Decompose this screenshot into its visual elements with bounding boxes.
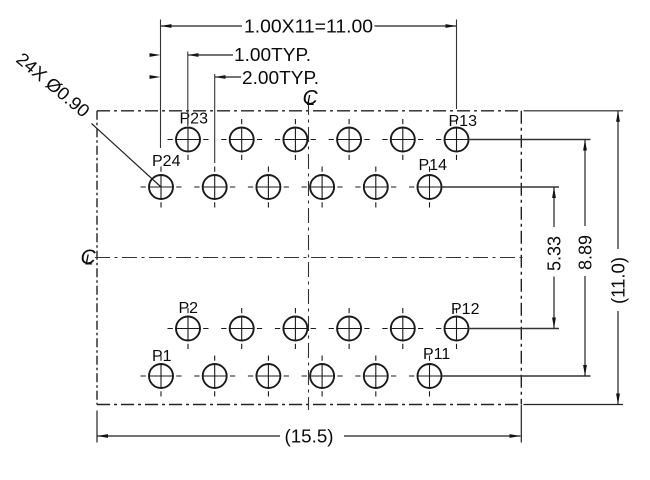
plate outline right edge [520,111,522,405]
extension line plate bottom left vertical [96,411,98,443]
dimension 1.00TYP leader tail [188,54,234,56]
svg-text:(11.0): (11.0) [609,257,629,304]
extension line second hole vertical [214,74,216,163]
dimension 1.00X11=11.00 extension line left [160,20,162,149]
hole P2 [168,308,209,349]
hole P23 [168,119,209,160]
extension line from P14 [442,186,560,188]
hole P11 [409,356,450,397]
hole row1 #3 [275,119,316,160]
dimension 8.89 line [584,140,586,377]
dimension 1.00X11=11.00 arrow left [161,24,172,28]
svg-text:2.00TYP.: 2.00TYP. [242,68,319,88]
dimension 5.33 arrow bottom [552,318,556,329]
centerline symbol top [303,87,319,110]
svg-text:L: L [307,92,315,109]
dimension 5.33 arrow top [552,187,556,198]
svg-text:L: L [85,252,93,269]
dimension 1.00X11=11.00 extension line right [456,20,458,110]
hole row2 #3 [248,167,289,208]
dimension (15.5) arrow right [510,434,521,438]
svg-text:P24: P24 [152,153,181,170]
dimension (11.0) line [617,111,619,405]
hole row3 #4 [329,308,370,349]
dimension 1.00X11=11.00 line [161,25,457,27]
centerline symbol left [81,246,97,269]
hole P1 [141,356,182,397]
extension line from P13 [469,139,591,141]
dimension 2.00TYP leader tail [215,76,242,78]
hole row4 #3 [248,356,289,397]
extension line plate bottom right vertical [520,405,522,443]
plate outline bottom edge [97,404,521,406]
svg-text:(15.5): (15.5) [285,427,334,447]
extension line from P12 [469,328,560,330]
svg-text:1.00TYP.: 1.00TYP. [234,45,311,65]
dimension 2.00TYP arrow at P24 line [150,75,161,79]
svg-text:1.00X11=11.00: 1.00X11=11.00 [244,17,373,37]
dimension 1.00TYP arrow at P24 line [150,53,161,57]
hole P24 [141,167,182,208]
dimension 1.00X11=11.00 arrow right [446,24,457,28]
svg-text:8.89: 8.89 [576,235,596,270]
hole row3 #3 [275,308,316,349]
plate outline left edge [96,111,98,405]
vertical centerline [308,100,310,410]
hole row2 #4 [302,167,343,208]
horizontal centerline [95,257,524,259]
dimension (15.5) arrow left [97,434,108,438]
hole row4 #5 [355,356,396,397]
svg-text:P13: P13 [449,113,478,130]
svg-text:P11: P11 [423,346,450,363]
dimension 1.00TYP arrow at P23 line [188,53,199,57]
svg-text:P12: P12 [451,301,480,318]
hole row3 #5 [382,308,423,349]
extension line from P11 [442,375,591,377]
dimension (11.0) arrow bottom [616,394,620,405]
dimension (15.5) line [97,435,521,437]
hole row1 #4 [329,119,370,160]
hole P13 [436,119,477,160]
hole row4 #4 [302,356,343,397]
hole row1 #2 [221,119,262,160]
leader from note to hole P24 [92,124,162,188]
svg-text:P23: P23 [180,111,209,128]
hole row4 #2 [194,356,235,397]
dimension 8.89 arrow top [583,140,587,151]
hole P12 [436,308,477,349]
extension line plate top right [524,110,624,112]
hole row2 #5 [355,167,396,208]
hole row1 #5 [382,119,423,160]
dimension (11.0) arrow top [616,111,620,122]
svg-text:P14: P14 [419,157,448,174]
hole row3 #2 [221,308,262,349]
extension line P23 vertical [187,52,189,127]
extension line plate bottom right [524,404,624,406]
dimension 2.00TYP arrow at second hole line [215,75,226,79]
hole row2 #2 [194,167,235,208]
svg-text:P1: P1 [152,348,172,365]
plate outline top edge [97,110,521,112]
svg-text:P2: P2 [179,300,199,317]
svg-text:5.33: 5.33 [545,236,565,271]
dimension 5.33 line [553,187,555,329]
dimension 8.89 arrow bottom [583,365,587,376]
hole P14 [409,167,450,208]
